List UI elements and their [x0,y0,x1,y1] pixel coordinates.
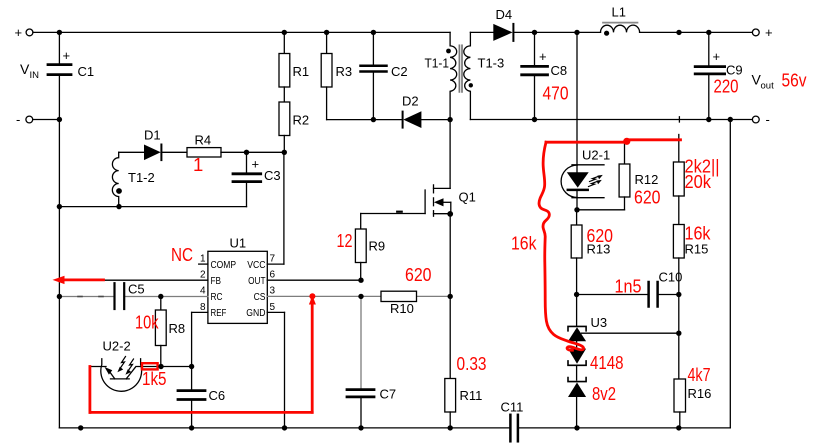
svg-text:T1-2: T1-2 [128,170,155,185]
node opto column top [574,30,579,35]
resistor 2k2 20k [673,135,684,225]
wire 1k5 node to REF [161,366,192,368]
node R13 C10 [574,292,579,297]
svg-text:+: + [539,49,547,64]
node C8 top [532,30,537,35]
svg-text:+: + [713,49,721,64]
svg-text:5: 5 [270,302,276,313]
resistor R3 [321,30,352,120]
U2-1 light arrows [589,175,603,187]
svg-text:620: 620 [405,264,432,285]
svg-text:C5: C5 [128,282,145,297]
svg-text:8v2: 8v2 [592,383,616,404]
wire right column [729,120,731,428]
svg-text:8: 8 [200,302,206,313]
svg-text:20k: 20k [685,171,712,192]
resistor R16 [674,379,711,428]
svg-text:R3: R3 [336,64,353,79]
resistor R8 [155,297,185,367]
node U3 bottom [574,425,579,430]
red overlay wires [53,138,681,413]
svg-text:R9: R9 [369,239,386,254]
svg-text:CS: CS [254,291,266,303]
diode D4 [493,7,513,41]
capacitor C9 [695,32,742,119]
node CS C7 [358,294,363,299]
node bottom mystery [78,425,83,430]
red box 1k5 [142,363,158,369]
wire gate [361,212,425,214]
svg-text:1: 1 [193,154,203,175]
svg-text:GND: GND [246,307,266,319]
wire top rail out [640,31,753,33]
node R8 top [158,294,163,299]
svg-text:U1: U1 [230,236,247,251]
svg-text:R4: R4 [195,133,212,148]
node T1-2 bottom [116,204,121,209]
node right column top [728,117,733,122]
svg-text:U3: U3 [591,315,608,330]
node stub top rail [676,30,681,35]
wire T1-2 bottom [59,206,246,208]
svg-text:R11: R11 [460,388,483,403]
svg-text:U2-1: U2-1 [582,148,610,163]
svg-text:R16: R16 [688,386,712,401]
svg-text:L1: L1 [612,5,626,20]
wire left rail [58,120,60,428]
svg-text:NC: NC [171,244,193,265]
svg-text:620: 620 [587,225,614,246]
svg-text:T1-3: T1-3 [478,56,505,71]
resistor R11 [445,296,483,428]
svg-text:56v: 56v [782,70,808,91]
wire CS net grey [267,296,450,388]
node C2 bottom [371,117,376,122]
label VIN [20,61,39,81]
svg-text:D1: D1 [144,128,161,143]
svg-text:R1: R1 [293,64,310,79]
transformer T1-1 winding [425,32,457,119]
dark dashes RC wire [78,296,103,298]
node GND bottom [282,425,287,430]
svg-text:RC: RC [211,291,223,303]
resistor R10 [381,291,417,316]
svg-text:-: - [766,112,770,127]
svg-text:6: 6 [270,270,276,281]
red value 2k2 20k [685,156,720,193]
resistor R15 [673,225,708,295]
U3 zener 8v2 [568,378,586,428]
svg-text:C8: C8 [551,63,568,78]
svg-text:+: + [15,25,23,40]
svg-text:R2: R2 [293,113,310,128]
node C9 bottom [706,117,711,122]
wire -in to rail [33,119,60,121]
svg-text:470: 470 [543,83,569,104]
label Vout [752,72,775,92]
U3 diode A [568,326,586,341]
svg-text:4: 4 [200,286,206,297]
inductor L1 [601,5,640,36]
svg-text:2: 2 [200,270,206,281]
terminal -in [16,112,33,127]
terminal -out [752,112,769,127]
svg-text:12: 12 [337,230,353,251]
resistor R9 [355,214,385,281]
wire top rail primary [33,31,450,33]
svg-text:16k: 16k [685,223,712,244]
U1 pin 6 OUT [248,270,361,287]
diode D1 [119,128,187,161]
U1 pin 8 REF [192,302,227,367]
node U3 tap right [676,331,681,336]
capacitor C5 [115,282,145,310]
svg-text:COMP: COMP [211,259,237,271]
svg-text:1k5: 1k5 [142,368,167,389]
capacitor C7 [347,387,396,428]
capacitor C3 [233,152,281,206]
svg-text:IN: IN [30,70,40,81]
svg-text:REF: REF [211,307,227,319]
svg-text:T1-1: T1-1 [425,56,450,71]
wire bottom rail right [518,427,730,429]
node R2 VCC [282,150,287,155]
node R8 bottom [158,364,163,369]
wire -out rail [470,119,752,121]
svg-text:4148: 4148 [590,352,624,373]
svg-text:C3: C3 [264,168,281,183]
IC U1 box [208,236,267,324]
wire opto R12 bottom [577,209,625,211]
red squiggle 16k [539,142,584,350]
svg-text:R12: R12 [635,172,659,187]
capacitor C6 [178,367,225,428]
capacitor C10 [649,270,683,307]
resistor R13 [571,210,610,295]
svg-text:V: V [20,61,30,77]
svg-text:C10: C10 [659,270,683,285]
U3 diode B 4148 [568,341,586,380]
node C7 bottom [358,425,363,430]
node T1-2 rail [57,204,62,209]
wire U3 column top [576,295,578,327]
node C6 bottom [189,425,194,430]
svg-text:-: - [16,112,20,127]
resistor R4 [187,133,247,158]
wire RC net grey [59,296,208,298]
transformer core [459,45,462,92]
node CS R11 [448,294,453,299]
wire R4 node to R2 [247,151,285,153]
svg-text:1n5: 1n5 [615,276,642,297]
wire C10 net [577,294,649,296]
svg-text:out: out [761,81,775,92]
svg-text:R15: R15 [685,242,709,257]
node C10 right [676,292,681,297]
node R16 bottom [676,425,681,430]
node C8 bottom [532,117,537,122]
wire bottom rail left [59,427,510,429]
svg-text:D4: D4 [496,7,513,22]
red CS tap wire [90,293,316,412]
resistor R12 [619,142,658,210]
svg-text:220: 220 [714,76,739,97]
wire opto column [576,32,578,164]
svg-text:OUT: OUT [248,275,266,287]
node OUT R9 [358,278,363,283]
wire snubber node [327,119,403,121]
svg-text:C2: C2 [391,64,408,79]
U1 pin 4 RC [200,286,223,303]
node R11 bottom [448,425,453,430]
wire U3 tap [582,332,679,334]
diode D2 [402,94,450,129]
svg-text:C7: C7 [380,387,397,402]
U1 pin 5 GND [246,302,284,428]
node C1 top [57,30,62,35]
transformer T1-2 winding [112,152,154,206]
U1 pin 3 CS [254,286,276,303]
U2-2 light arrows [117,357,133,375]
svg-text:+: + [63,48,71,63]
node RC rail [57,294,62,299]
node R4 C3 [244,150,249,155]
capacitor C2 [361,30,408,120]
svg-text:C11: C11 [501,400,524,415]
svg-text:+: + [252,157,260,172]
U1 pin 2 FB [104,270,222,287]
optocoupler U2-1 [561,148,610,210]
node -in [57,117,62,122]
svg-text:U2-2: U2-2 [103,339,131,354]
transformer T1-3 winding [464,32,504,119]
terminal +in [15,25,33,40]
svg-text:3: 3 [270,286,276,297]
node C9 top [706,30,711,35]
crossing tick 2k2 column [678,117,680,122]
resistor R2 [279,87,309,152]
svg-text:Q1: Q1 [459,190,476,205]
wire right column lower [678,295,680,380]
capacitor C8 [522,32,567,119]
node opto R13 [574,207,579,212]
svg-text:4k7: 4k7 [688,364,711,385]
svg-text:+: + [765,25,773,40]
svg-text:7: 7 [270,254,276,265]
svg-text:R10: R10 [390,301,414,316]
svg-text:VCC: VCC [247,259,266,271]
svg-text:R8: R8 [169,321,186,336]
svg-text:1: 1 [200,254,206,265]
U1 pin 1 COMP [199,254,236,271]
svg-text:C1: C1 [78,64,95,79]
wire top rail secondary [513,31,600,33]
svg-text:0.33: 0.33 [457,353,487,374]
capacitor C1 [48,32,94,119]
capacitor C11 [501,400,524,442]
wire T1-3 top to D4 [470,31,493,33]
terminal +out [752,25,772,40]
wire Q1 source column [449,214,451,297]
mosfet Q1 [425,120,476,217]
svg-text:620: 620 [634,187,661,208]
svg-text:16k: 16k [511,233,537,254]
node REF C6 [189,364,194,369]
svg-text:C6: C6 [209,388,226,403]
svg-text:FB: FB [211,275,222,287]
svg-text:D2: D2 [402,94,419,109]
U1 pin 7 VCC [247,152,284,270]
red FB arrow [53,276,104,284]
resistor R1 [279,30,309,87]
optocoupler U2-2 [90,339,161,392]
node drain [447,117,452,122]
svg-text:10k: 10k [135,312,159,333]
red out divider line [546,138,681,145]
